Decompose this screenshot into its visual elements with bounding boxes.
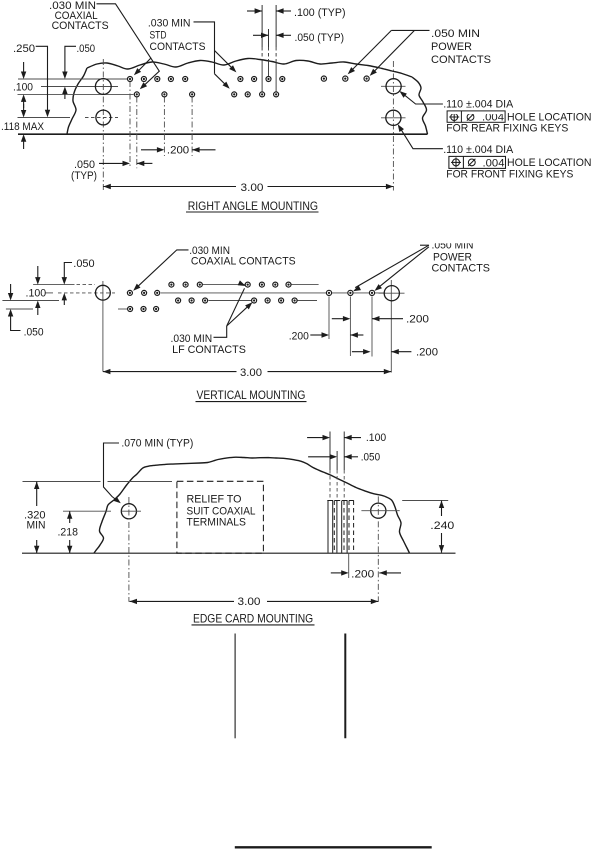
svg-text:.100: .100	[13, 82, 33, 94]
extension line x348.7 below block	[348, 553, 350, 578]
svg-text:.110 ±.004 DIA: .110 ±.004 DIA	[443, 99, 514, 111]
leader coaxial contacts	[97, 4, 160, 88]
dimension 3.00 bottom	[130, 600, 235, 602]
mid hole right	[384, 286, 399, 301]
edge view: right break edge	[385, 496, 410, 553]
svg-text:.118 MAX: .118 MAX	[1, 121, 45, 133]
leader power contacts	[391, 29, 429, 31]
svg-text:RIGHT ANGLE MOUNTING: RIGHT ANGLE MOUNTING	[188, 199, 318, 213]
svg-text:.050: .050	[24, 326, 44, 338]
svg-text:.218: .218	[58, 527, 79, 539]
svg-text:.050: .050	[361, 451, 380, 463]
svg-text:FOR FRONT FIXING KEYS: FOR FRONT FIXING KEYS	[446, 168, 573, 180]
svg-text:CONTACTS: CONTACTS	[432, 262, 491, 274]
edge view: board bottom edge	[22, 552, 456, 554]
column extension x276.1	[275, 5, 277, 47]
mid leader power	[420, 244, 429, 246]
contacts row1 power	[321, 76, 326, 81]
top view: left holes vertical centerline	[102, 59, 104, 191]
mid dimension 3.00	[103, 371, 237, 373]
top view: hole3 horizontal centerline	[381, 85, 406, 87]
mid: right hole vertical centerline	[390, 280, 392, 373]
edge view: board profile	[114, 457, 385, 500]
finger column extensions	[329, 432, 331, 471]
column centerline x136.8	[136, 97, 138, 169]
top view: hole1 horizontal centerline	[41, 86, 118, 88]
mid dimension .200 first	[332, 318, 348, 320]
stray vertical line right	[344, 634, 346, 739]
svg-text:.070 MIN (TYP): .070 MIN (TYP)	[121, 438, 193, 450]
top view: extension line row1 y79	[18, 78, 127, 80]
mid: row C extension line	[6, 308, 33, 310]
svg-text:.200: .200	[289, 331, 309, 343]
column centerline x130 (.050 typ left)	[129, 81, 131, 167]
svg-text:3.00: 3.00	[240, 367, 262, 379]
svg-text:.050 (TYP): .050 (TYP)	[295, 32, 345, 44]
svg-text:CONTACTS: CONTACTS	[150, 41, 206, 53]
top view: right holes vertical centerline	[392, 61, 394, 191]
svg-text:VERTICAL MOUNTING: VERTICAL MOUNTING	[197, 388, 306, 402]
mid contacts row B	[176, 298, 181, 303]
svg-text:MIN: MIN	[27, 520, 46, 532]
svg-text:.100 (TYP): .100 (TYP)	[294, 7, 346, 19]
leader hole location rear (right)	[401, 92, 443, 104]
svg-text:LF CONTACTS: LF CONTACTS	[172, 344, 246, 356]
dimension .100 left	[23, 62, 25, 74]
dimension .200 bottom	[331, 572, 346, 574]
svg-text:POWER: POWER	[431, 41, 472, 53]
svg-text:FOR REAR FIXING KEYS: FOR REAR FIXING KEYS	[446, 123, 568, 135]
hole left bottom crosshair	[63, 510, 111, 512]
mid dimension .100 left	[37, 266, 39, 279]
svg-text:.050: .050	[77, 43, 96, 55]
extension line top .320	[23, 481, 101, 483]
mid contacts row A	[169, 282, 174, 287]
mid dimension .050 lower left	[10, 284, 12, 293]
leader hole location front (right)	[399, 126, 443, 149]
svg-text:.200: .200	[416, 347, 438, 359]
top view: hole4 horizontal centerline	[381, 117, 406, 119]
svg-text:.050 MIN: .050 MIN	[431, 28, 480, 40]
column centerline x192.1	[191, 97, 193, 157]
svg-text:3.00: 3.00	[238, 596, 261, 608]
svg-text:.050: .050	[73, 258, 94, 270]
feature control frame rear	[447, 111, 505, 122]
svg-text:3.00: 3.00	[241, 182, 264, 194]
svg-text:(TYP): (TYP)	[71, 170, 97, 182]
contacts row2 std	[232, 92, 237, 97]
dimension 3.00 top	[103, 186, 236, 188]
contacts row2 coaxial	[134, 92, 139, 97]
svg-text:.200: .200	[167, 145, 189, 157]
mid contacts row H coaxial	[127, 290, 132, 295]
dimension .218	[69, 511, 71, 523]
svg-text:.240: .240	[430, 520, 454, 532]
dimension .200 top	[141, 149, 162, 151]
top view: hole2 horizontal centerline	[18, 117, 71, 119]
mid: power column extensions	[328, 297, 330, 340]
hole H4 front fixing right	[386, 110, 401, 125]
dimension .240	[441, 501, 443, 517]
mid contacts row H power	[326, 290, 331, 295]
hole right bottom crosshair	[361, 510, 399, 512]
stray vertical line left	[234, 634, 236, 739]
svg-text:EDGE CARD MOUNTING: EDGE CARD MOUNTING	[193, 611, 313, 625]
svg-text:RELIEF TO: RELIEF TO	[187, 493, 242, 505]
dimension .118 MAX	[23, 104, 25, 112]
hole H2 front fixing	[96, 110, 111, 125]
dimension .100 bottom	[307, 437, 327, 439]
mid: row H centerline	[45, 292, 53, 294]
mid: left hole vertical centerline	[102, 281, 104, 372]
mid leader lf contacts	[214, 326, 227, 337]
svg-text:.250: .250	[13, 43, 35, 55]
mid hole left	[96, 285, 111, 300]
relief dashed rectangle	[177, 481, 264, 553]
contacts row1 coaxial	[128, 77, 133, 82]
svg-text:CONTACTS: CONTACTS	[431, 54, 491, 66]
top view: board bottom edge	[18, 133, 428, 135]
edge card finger block	[327, 500, 333, 502]
svg-text:.110 ±.004 DIA: .110 ±.004 DIA	[443, 144, 514, 156]
mid leader coaxial	[135, 250, 188, 289]
hole H1 rear fixing	[95, 79, 111, 95]
leader std contacts	[194, 22, 215, 74]
dimension .050 bottom	[308, 456, 334, 458]
svg-text:COAXIAL CONTACTS: COAXIAL CONTACTS	[191, 256, 296, 268]
top view: board outline (right angle mounting)	[87, 58, 412, 77]
extension line .240 top	[402, 500, 448, 502]
mid: right hole horizontal centerline	[379, 292, 405, 294]
mid: row B extension line	[2, 300, 59, 302]
top view: left break edge	[67, 68, 87, 134]
edge view: left break edge	[94, 500, 114, 553]
hole left bottom	[121, 504, 136, 519]
dimension .320 MIN	[36, 482, 38, 507]
contacts row1 std	[238, 77, 243, 82]
dimension .050 (TYP) upper	[253, 34, 269, 36]
svg-text:.100: .100	[26, 287, 47, 299]
column centerline x164.4	[163, 97, 165, 157]
column extension x262.1 (.100 typ)	[261, 5, 263, 47]
svg-text:CONTACTS: CONTACTS	[52, 20, 109, 32]
feature control frame front	[449, 156, 506, 168]
dimension .100 (TYP)	[247, 10, 262, 12]
mid contacts row C	[128, 307, 133, 312]
mid: row A extension line	[33, 284, 74, 286]
leader .070	[104, 443, 120, 501]
svg-text:.030 MIN: .030 MIN	[148, 18, 191, 30]
mid dimension .200 third	[352, 351, 368, 353]
svg-text:TERMINALS: TERMINALS	[187, 517, 247, 529]
svg-text:.200: .200	[406, 314, 429, 326]
column extension x268.5 (.050 typ)	[268, 29, 270, 47]
svg-text:STD: STD	[150, 30, 167, 42]
top view: right break edge	[412, 77, 428, 134]
svg-text:.200: .200	[351, 568, 374, 580]
hole right bottom	[371, 503, 386, 518]
footer horizontal rule	[235, 846, 432, 848]
top view: extension line row2 y94.4	[18, 93, 134, 95]
hole H3 rear fixing right	[386, 79, 401, 94]
svg-text:.100: .100	[366, 432, 386, 444]
svg-text:HOLE LOCATION: HOLE LOCATION	[507, 111, 592, 123]
